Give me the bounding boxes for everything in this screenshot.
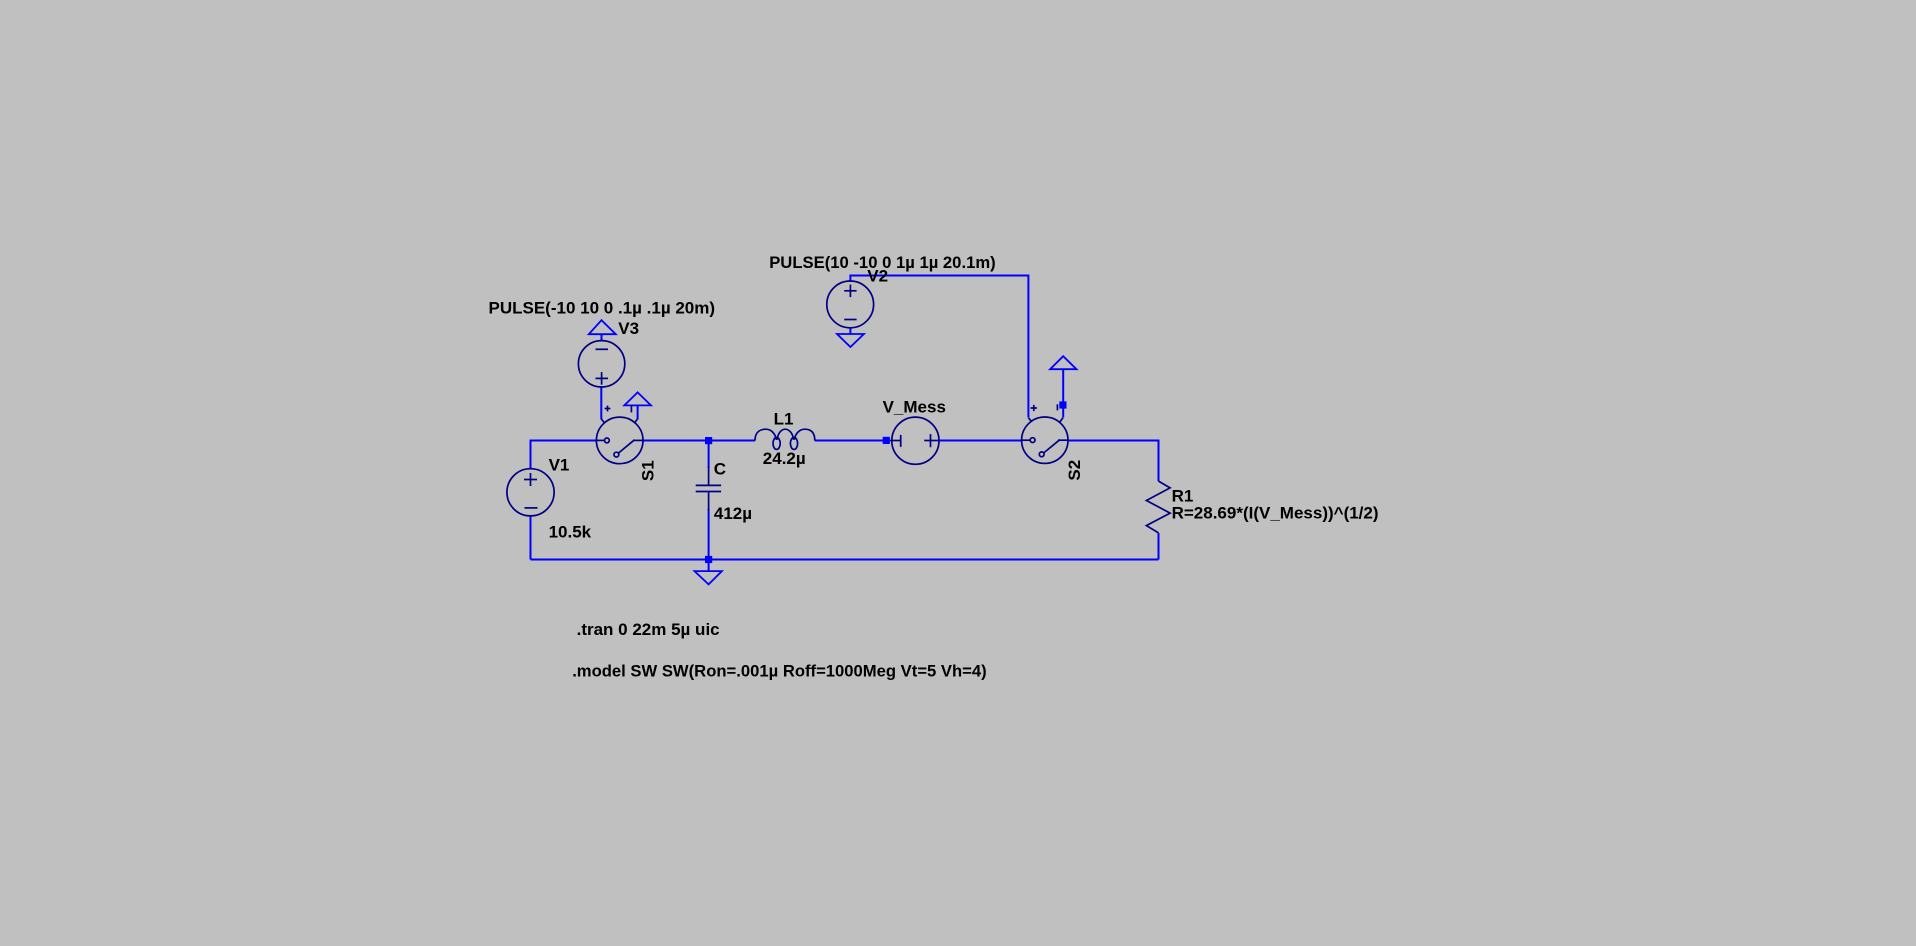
svg-text:S1: S1	[639, 460, 658, 481]
ground flipped at S2 minus	[1050, 356, 1076, 369]
wire S1 to node C	[643, 440, 755, 442]
ground (below V2)	[837, 334, 864, 347]
svg-text:C: C	[714, 460, 726, 479]
ground flipped above V3	[589, 320, 616, 334]
wire V2 ground stem	[849, 328, 851, 334]
junction node C top	[705, 437, 712, 444]
svg-text:S2: S2	[1065, 460, 1084, 481]
directive .tran	[577, 620, 720, 639]
wire ground stem	[708, 563, 710, 571]
svg-text:24.2µ: 24.2µ	[763, 449, 806, 468]
resistor R1	[1146, 481, 1170, 533]
svg-text:V3: V3	[618, 319, 639, 338]
svg-text:PULSE(-10 10 0 .1µ .1µ 20m): PULSE(-10 10 0 .1µ .1µ 20m)	[489, 298, 716, 317]
junction S2 minus	[1059, 401, 1066, 408]
svg-text:V2: V2	[867, 267, 888, 286]
svg-text:L1: L1	[774, 409, 794, 428]
value PULSE V3	[489, 298, 716, 317]
svg-text:R=28.69*(I(V_Mess))^(1/2): R=28.69*(I(V_Mess))^(1/2)	[1172, 504, 1379, 523]
label V3	[618, 319, 639, 338]
svg-text:.model SW SW(Ron=.001µ Roff=10: .model SW SW(Ron=.001µ Roff=1000Meg Vt=5…	[572, 662, 987, 681]
label V_Mess	[883, 398, 946, 417]
wire L1 to V_Mess	[815, 440, 883, 442]
switch S2	[1022, 404, 1068, 463]
wire V2 to S2 control plus	[850, 276, 1028, 418]
wire node to capacitor C	[708, 444, 710, 468]
voltage source V2	[827, 281, 874, 328]
wire V3 arrow stem	[601, 334, 603, 340]
wire S2 to R1	[1068, 441, 1159, 482]
wire V1 top to S1	[531, 441, 597, 469]
label V1	[549, 456, 570, 475]
ground (bottom rail)	[695, 571, 722, 584]
label L1	[774, 409, 794, 428]
wire R1 to bottom rail	[1158, 533, 1160, 560]
value PULSE V2	[769, 253, 996, 272]
wire V_Mess to S2	[940, 440, 1022, 442]
value 10.5k	[549, 522, 592, 541]
inductor L1	[755, 429, 815, 449]
junction V_Mess left	[883, 437, 890, 444]
label V2	[867, 267, 888, 286]
capacitor C	[696, 467, 721, 510]
ground flipped at S1 minus	[624, 392, 651, 405]
svg-text:V_Mess: V_Mess	[883, 398, 946, 417]
label C	[714, 460, 726, 479]
wire bottom rail	[531, 559, 1159, 561]
label S1	[639, 460, 658, 481]
label S2	[1065, 460, 1084, 481]
voltage source V3	[578, 341, 624, 387]
svg-text:412µ: 412µ	[714, 504, 752, 523]
value R expression	[1172, 504, 1379, 523]
switch S1	[596, 406, 643, 464]
voltage source V1	[507, 469, 554, 516]
wire capacitor C to bottom rail	[708, 509, 710, 556]
wire V3 to S1 control plus	[600, 387, 602, 419]
voltage source V_Mess	[890, 417, 940, 464]
svg-text:.tran 0 22m 5µ uic: .tran 0 22m 5µ uic	[577, 620, 720, 639]
label R1	[1172, 487, 1194, 506]
svg-text:10.5k: 10.5k	[549, 522, 592, 541]
junction bottom rail	[705, 556, 712, 563]
value 412u	[714, 504, 752, 523]
wire S1 arrow stem	[637, 405, 639, 419]
wire S2 control minus stem	[1062, 369, 1064, 417]
value 24.2u	[763, 449, 806, 468]
svg-text:V1: V1	[549, 456, 570, 475]
wire V1 bottom to ground rail	[530, 516, 532, 560]
directive .model	[572, 662, 987, 681]
